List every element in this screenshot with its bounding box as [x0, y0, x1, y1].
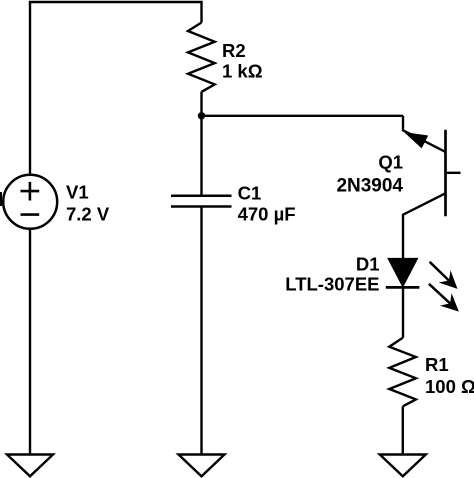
svg-text:470 µF: 470 µF — [238, 204, 296, 225]
ground left — [7, 455, 53, 477]
capacitor C1 — [171, 196, 232, 207]
light arrow 1 — [430, 262, 458, 289]
wire C1 to ground — [200, 207, 202, 455]
resistor R2 — [188, 23, 215, 92]
node junction dot — [198, 112, 205, 119]
svg-text:R1: R1 — [425, 354, 449, 375]
LED D1 — [386, 259, 420, 288]
svg-text:100 Ω: 100 Ω — [425, 376, 474, 397]
wire V1 to ground — [29, 229, 31, 455]
wire top rail from V1 to R2 — [30, 2, 202, 175]
voltage source V1 — [3, 175, 57, 229]
svg-text:7.2 V: 7.2 V — [66, 204, 110, 225]
svg-text:LTL-307EE: LTL-307EE — [285, 273, 379, 294]
wire D1 to R1 — [402, 287, 404, 337]
transistor Q1 — [403, 116, 461, 260]
wire junction to Q1 — [202, 115, 404, 117]
svg-text:C1: C1 — [238, 182, 262, 203]
wire R2 to C1 — [200, 92, 202, 196]
svg-text:Q1: Q1 — [378, 152, 403, 173]
svg-text:D1: D1 — [356, 254, 380, 275]
ground middle — [179, 455, 225, 477]
ground right — [380, 455, 426, 477]
resistor R1 — [389, 338, 416, 407]
svg-text:2N3904: 2N3904 — [336, 175, 403, 196]
svg-text:1 kΩ: 1 kΩ — [222, 61, 263, 82]
svg-text:R2: R2 — [222, 40, 246, 61]
wire R1 to ground — [402, 406, 404, 454]
cropped mark at left edge — [0, 192, 2, 206]
light arrow 2 — [429, 284, 459, 312]
svg-text:V1: V1 — [66, 182, 89, 203]
